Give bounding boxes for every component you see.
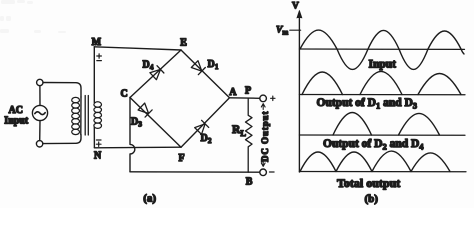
axis V vertical with arrow [298,14,300,172]
polarity mark plus-minus at M [97,54,102,61]
svg-text:M: M [92,37,102,48]
terminal P [260,95,267,102]
svg-text:V: V [292,2,299,12]
wire M to E [94,47,181,50]
svg-text:Total output: Total output [337,176,400,190]
transformer core [85,96,88,136]
terminal top AC [37,79,43,85]
waveform D1 D3 output baseline [299,94,465,96]
waveform total output humps [300,151,450,171]
ghost marks top-left [0,0,66,33]
waveform input baseline [299,48,464,50]
wire secondary bottom to N corner [93,128,95,148]
waveform input sine [300,30,464,69]
svg-text:(a): (a) [143,193,156,205]
svg-text:D3: D3 [131,116,142,128]
wire E to A (bridge edge) [181,50,230,98]
wire N to F [94,146,181,149]
svg-text:C: C [121,89,128,100]
wire F to A (bridge edge) [181,98,230,147]
wire top terminal to primary [43,83,81,98]
svg-text:Output of D1 and D3: Output of D1 and D3 [317,97,418,111]
svg-text:RL: RL [232,124,246,138]
diode D1 [191,61,205,75]
wire C to E (bridge edge) [130,50,181,98]
wire secondary top to M corner [93,47,95,103]
wire AC source to terminals [39,86,41,141]
svg-text:P: P [245,85,251,96]
DC Output label with arrows [261,104,265,167]
transformer T1 primary winding [80,97,82,135]
wire C to F (bridge edge) [130,98,181,148]
svg-text:F: F [179,153,185,164]
svg-text:Vm: Vm [276,26,288,37]
svg-text:DC Output: DC Output [260,111,270,162]
wire C down to bottom rail with hop [130,98,135,172]
svg-text:AC: AC [9,105,23,116]
diode D3 [138,103,152,117]
waveform D2 D4 humps [333,113,440,136]
svg-text:D1: D1 [208,59,219,71]
plus sign at P terminal [271,96,275,100]
svg-text:B: B [246,177,253,188]
svg-text:D4: D4 [143,59,154,71]
wire A to P [230,97,260,100]
waveform D1 D3 humps [302,71,461,94]
svg-text:N: N [94,151,102,162]
minus sign at B terminal [270,171,275,173]
waveform D2 D4 output baseline [299,134,465,136]
terminal B [260,169,267,176]
svg-text:E: E [180,37,187,48]
terminal bottom AC [36,141,42,147]
wire bottom terminal to primary [43,135,81,144]
wire bottom rail to B [130,171,260,173]
diode D2 [195,120,209,134]
svg-text:Input: Input [369,59,397,71]
polarity mark minus-plus at N [96,140,101,146]
transformer T1 secondary winding [94,102,102,129]
svg-text:(b): (b) [365,193,379,205]
diode D4 [150,66,164,80]
waveform total output baseline [299,171,466,173]
resistor RL [246,98,253,172]
svg-text:D2: D2 [201,133,212,145]
svg-text:Output of D2 and D4: Output of D2 and D4 [323,138,424,152]
AC source V1 [32,105,47,120]
svg-text:Input: Input [4,116,29,127]
svg-text:A: A [229,87,237,98]
